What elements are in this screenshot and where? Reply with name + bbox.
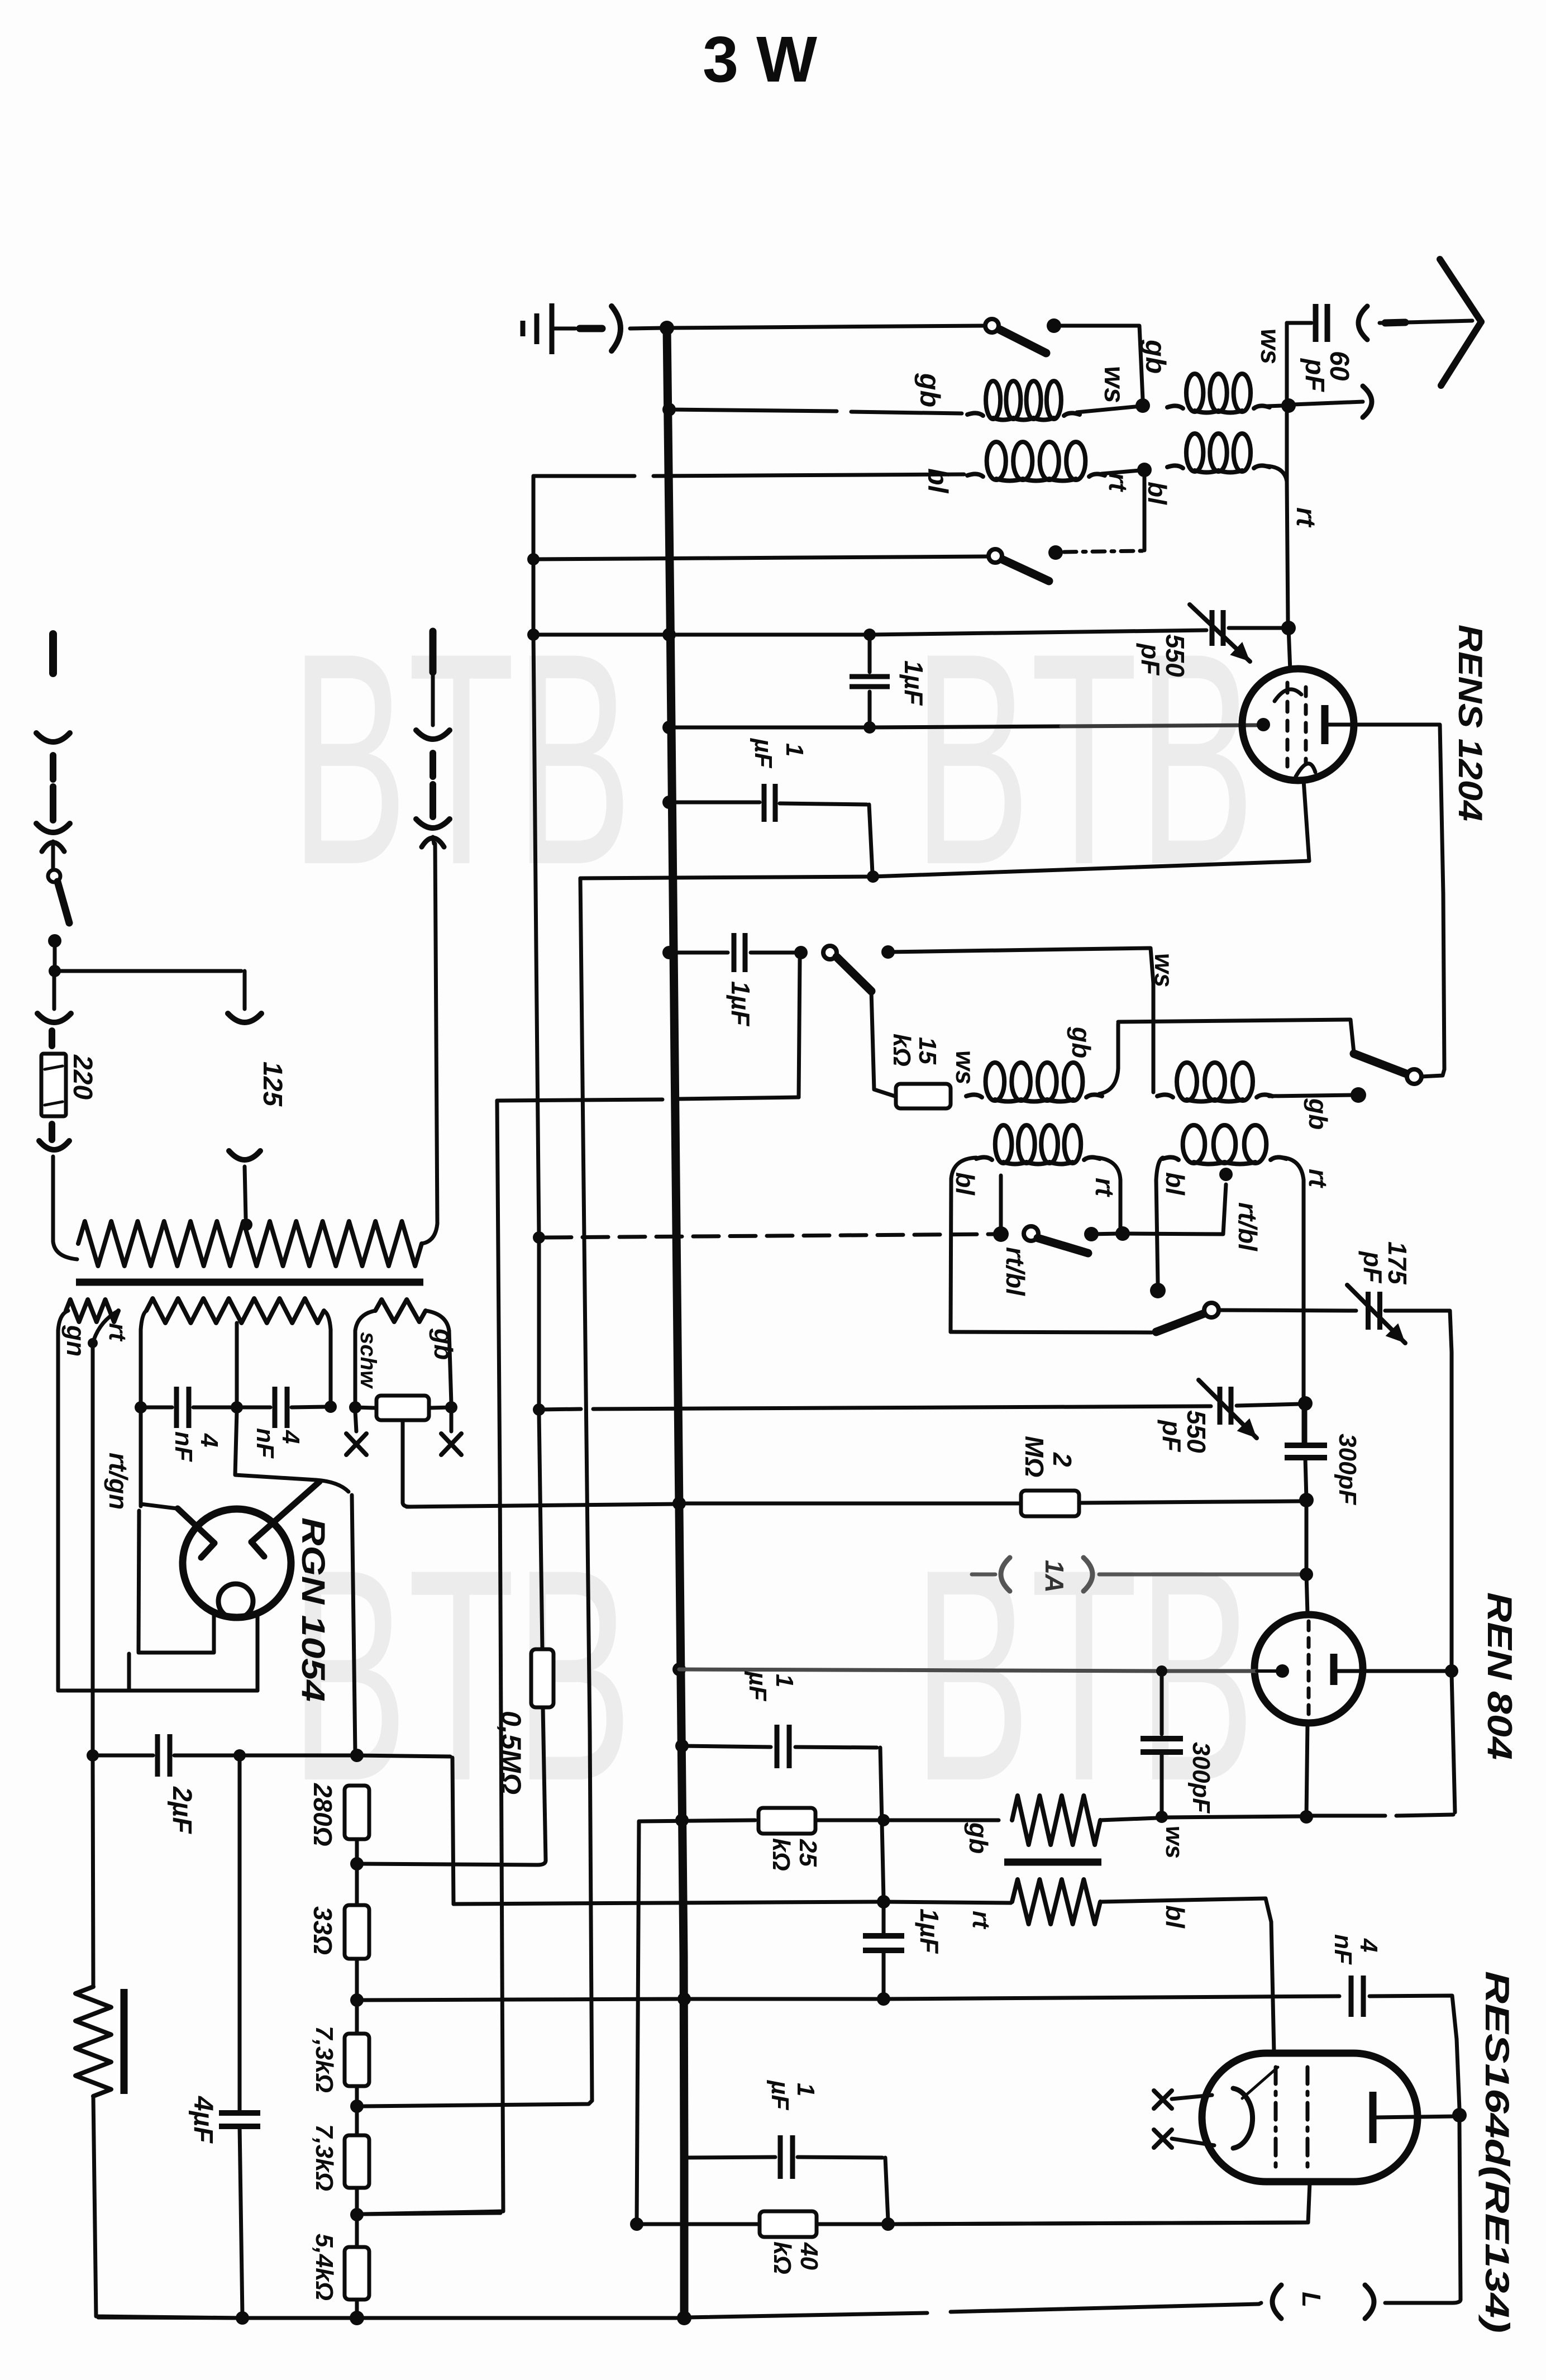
svg-text:pF: pF bbox=[1300, 358, 1329, 392]
REN804 anode bar bbox=[1330, 1654, 1338, 1685]
resistor 280 Ohm bbox=[345, 1786, 369, 1839]
wire speaker to rail bbox=[93, 2096, 240, 2318]
capacitor 1uF (AF bypass) bbox=[682, 1746, 771, 1747]
wire mains down to fuse bbox=[53, 971, 56, 1009]
node 1uF AF bottom bbox=[877, 1992, 890, 2006]
REN804 grid (dashed) bbox=[1307, 1621, 1311, 1716]
wire RGN bottom step bbox=[127, 1654, 131, 1689]
coil L3 bl bbox=[967, 474, 983, 477]
node bus 4nF row bbox=[677, 1992, 691, 2006]
fuse 220 bbox=[41, 1054, 66, 1116]
wire bottom rail bbox=[951, 2304, 1259, 2312]
svg-text:1: 1 bbox=[781, 743, 808, 756]
capacitor 4nF a bbox=[141, 1406, 172, 1410]
wire B+ row to rt riser bbox=[357, 1755, 450, 1757]
transformer T1 heater winding A bbox=[66, 1300, 118, 1322]
capacitor 60pF bbox=[1313, 304, 1319, 342]
wire REN804 plate lead bbox=[1363, 1669, 1448, 1673]
svg-text:ws: ws bbox=[951, 1050, 980, 1084]
X mark filament 2 bbox=[1154, 2130, 1172, 2148]
resistor 25kOhm bbox=[758, 1808, 815, 1834]
wire RGN left loop bbox=[139, 1511, 139, 1651]
svg-text:1: 1 bbox=[792, 2083, 819, 2096]
node osc cap bbox=[794, 946, 808, 959]
node B+ (280) bbox=[350, 1749, 364, 1762]
svg-text:rt: rt bbox=[104, 1323, 131, 1342]
coil L6 ws-gb bbox=[1157, 1094, 1173, 1097]
mains plug pin A bbox=[49, 634, 57, 673]
node ws tap bbox=[881, 945, 895, 959]
svg-text:7,3kΩ: 7,3kΩ bbox=[311, 2026, 338, 2093]
svg-text:RENS 1204: RENS 1204 bbox=[1452, 625, 1489, 821]
mains plug pin B bbox=[430, 631, 437, 672]
wire rt row bbox=[454, 1902, 880, 1904]
svg-text:300pF: 300pF bbox=[1187, 1742, 1215, 1813]
svg-text:33Ω: 33Ω bbox=[308, 1906, 337, 1955]
node plate bbox=[1445, 1664, 1458, 1678]
connector antenna jack upper bbox=[1358, 306, 1367, 340]
wire chain tap row 2 bbox=[364, 2101, 592, 2106]
node primary tap bbox=[240, 1218, 252, 1231]
bus (main vertical) bbox=[667, 328, 684, 2318]
svg-text:2: 2 bbox=[1048, 1452, 1077, 1467]
resistor 2MOhm bbox=[679, 1502, 1019, 1506]
node cathode join bbox=[1300, 1810, 1313, 1824]
wire L2 to node 60pF bbox=[1267, 406, 1283, 406]
svg-text:bl: bl bbox=[1161, 1905, 1190, 1929]
trimmer capacitor 550pF (det) bbox=[1218, 1387, 1223, 1425]
node 1uF tap bbox=[863, 629, 876, 641]
antenna symbol bbox=[1440, 259, 1481, 322]
node bus grid-leak row bbox=[672, 1663, 686, 1676]
wire 175pF to corner bbox=[1385, 1311, 1452, 1352]
tube RES164d bbox=[1202, 2053, 1418, 2182]
svg-text:1µF: 1µF bbox=[915, 1908, 944, 1954]
capacitor 4uF bbox=[238, 1759, 242, 2112]
wire anode to L jack bbox=[1459, 2122, 1461, 2300]
svg-text:µF: µF bbox=[744, 1670, 771, 1701]
node bus grid row bbox=[662, 721, 676, 734]
wire plate drop corner bbox=[1452, 1674, 1455, 1812]
transformer T1 heater winding B bbox=[375, 1300, 426, 1322]
node bus osc row bbox=[662, 946, 676, 959]
node 2M junction bbox=[1299, 1493, 1314, 1507]
svg-text:µF: µF bbox=[766, 2079, 794, 2110]
resistor chain 33 Ohm bbox=[355, 1867, 359, 1904]
wire S2 dash-dot to coil node bbox=[1064, 551, 1142, 552]
node rail chain bbox=[350, 2311, 364, 2325]
wire RENS1204 top lead bbox=[1289, 628, 1290, 670]
svg-text:gn: gn bbox=[61, 1325, 90, 1356]
svg-text:1A: 1A bbox=[1040, 1560, 1069, 1593]
capacitor 300pF (REN grid) bbox=[1160, 1671, 1164, 1734]
svg-text:bl: bl bbox=[1161, 1172, 1190, 1196]
switch S3 (feedback) bbox=[823, 946, 837, 959]
switch S1 (antenna) bbox=[985, 319, 999, 332]
wire 1A row bbox=[1099, 1573, 1301, 1577]
wire S4 to plate line bbox=[1421, 1069, 1444, 1077]
transformer T2 primary gb zigzag bbox=[1012, 1796, 1100, 1845]
wire row5 (550pF row) bbox=[533, 633, 865, 637]
wire S6 to 175pF bbox=[1219, 1310, 1356, 1311]
wire down to HT row bbox=[799, 959, 800, 1097]
svg-text:µF: µF bbox=[750, 737, 777, 768]
svg-text:RES164d(RE134): RES164d(RE134) bbox=[1478, 1971, 1516, 2333]
svg-text:15: 15 bbox=[914, 1037, 941, 1064]
svg-text:rt/bl: rt/bl bbox=[1001, 1247, 1030, 1296]
svg-text:bl: bl bbox=[1143, 482, 1172, 505]
switch S4 lever bbox=[1354, 1054, 1406, 1074]
coil L7 bl/rt bbox=[976, 1157, 992, 1160]
wire hum pot wiper bbox=[401, 1420, 405, 1503]
wire cathode lead bbox=[1304, 780, 1309, 861]
svg-text:rt: rt bbox=[1104, 473, 1133, 492]
switch S2 bbox=[989, 549, 1002, 563]
wire left vertical 955 bbox=[533, 476, 539, 1410]
ground symbol bbox=[521, 321, 526, 336]
svg-text:25: 25 bbox=[794, 1839, 822, 1867]
node ws/gb junction bbox=[1135, 398, 1150, 413]
capacitor 4nF b bbox=[240, 1406, 270, 1410]
wire filament return row bbox=[58, 1689, 257, 1693]
wire L4 right to vertical bbox=[1267, 466, 1287, 482]
svg-text:bl: bl bbox=[951, 1172, 980, 1196]
svg-text:BTB: BTB bbox=[913, 591, 1255, 927]
RENS1204 internal grids (dashed) bbox=[1286, 683, 1290, 767]
svg-text:rt: rt bbox=[1291, 507, 1320, 528]
node cap drop AF row bbox=[877, 1814, 890, 1826]
node L7 rt bbox=[1115, 1226, 1130, 1241]
capacitor 300pF (grid) bbox=[1285, 1443, 1327, 1448]
coil L4 bbox=[1167, 465, 1183, 468]
wire HT row (row9) bbox=[497, 1099, 662, 1101]
wire RGN bottom-left lead bbox=[212, 1615, 216, 1653]
wire CT jog to B+ bbox=[235, 1411, 316, 1480]
wire rt vertical (to REN804) bbox=[1302, 1180, 1306, 1444]
node CT 4nF bbox=[231, 1401, 243, 1413]
wire RES164d anode lead bbox=[1376, 2116, 1457, 2117]
node 60pF junction bbox=[1281, 398, 1296, 413]
node S5 right bbox=[1084, 1227, 1099, 1241]
speaker field coil bbox=[93, 1759, 93, 1986]
svg-text:kΩ: kΩ bbox=[769, 2241, 796, 2274]
wire row3 bl bbox=[533, 474, 634, 478]
wire L3 to node bbox=[1101, 470, 1139, 474]
wire heater A left (gn) bbox=[58, 1311, 68, 1331]
RES164d grid entry bbox=[1242, 2067, 1278, 2098]
node anode bbox=[1452, 2108, 1467, 2122]
REN804 grid terminal bbox=[1276, 1664, 1289, 1678]
svg-text:4: 4 bbox=[195, 1433, 223, 1447]
svg-text:MΩ: MΩ bbox=[1020, 1436, 1049, 1477]
wire RENS1204 cathode row bbox=[867, 870, 879, 883]
node bus row5 bbox=[662, 628, 676, 641]
wire zigzag to ws node bbox=[1100, 1818, 1157, 1820]
svg-text:rt/bl: rt/bl bbox=[1233, 1202, 1262, 1251]
wire 4nF to anode node bbox=[1370, 1996, 1457, 2039]
coil L5 ws bbox=[966, 1094, 982, 1097]
switch S6 lever bbox=[1156, 1313, 1204, 1332]
node 1uF AF top bbox=[877, 1895, 890, 1908]
terminal gb (dead end) bbox=[1351, 1087, 1366, 1103]
svg-text:2µF: 2µF bbox=[167, 1786, 197, 1834]
capacitor 1uF (output bias) bbox=[684, 2157, 775, 2158]
wire heater B right bbox=[426, 1311, 449, 1331]
wire tuned row to switch S6 bbox=[949, 1330, 953, 1332]
wire hum pot wiper row bbox=[407, 1504, 679, 1507]
svg-text:1: 1 bbox=[771, 1674, 798, 1687]
svg-text:7,3kΩ: 7,3kΩ bbox=[311, 2124, 338, 2191]
wire L5 right up bbox=[1099, 1068, 1118, 1094]
node HV right 4nF bbox=[325, 1401, 337, 1413]
svg-text:RGN 1054: RGN 1054 bbox=[295, 1517, 331, 1702]
svg-text:ws: ws bbox=[1255, 329, 1285, 364]
svg-text:gb: gb bbox=[1304, 1098, 1333, 1130]
transformer T1 primary bbox=[78, 1221, 422, 1266]
capacitor 1uF (bus to cathode row) bbox=[662, 796, 676, 809]
transformer T2 secondary rt zigzag bbox=[1012, 1879, 1100, 1924]
wire rt row left riser bbox=[452, 1758, 454, 1904]
coil L1 antenna gb bbox=[967, 413, 983, 416]
svg-text:125: 125 bbox=[257, 1062, 287, 1107]
capacitor 4nF (tone) bbox=[1349, 1976, 1354, 2017]
transformer T1 HV secondary bbox=[146, 1298, 324, 1323]
wire 550pF row bbox=[539, 1409, 581, 1410]
wire L6 right to terminal bbox=[1269, 1095, 1354, 1096]
svg-text:BTB: BTB bbox=[290, 1507, 632, 1844]
wire cathode lead REN804 bbox=[1306, 1723, 1308, 1817]
node rt/bl junction bbox=[1137, 463, 1152, 477]
svg-text:gb: gb bbox=[1140, 339, 1171, 374]
node chain 2 bbox=[350, 2100, 364, 2113]
svg-text:nF: nF bbox=[1329, 1934, 1357, 1965]
wire chain tap row 3 bbox=[364, 2213, 500, 2214]
tube RGN1054 bbox=[183, 1509, 291, 1617]
wire to L8 tap bbox=[1123, 1184, 1226, 1234]
resistor 0.5MOhm bbox=[539, 1413, 542, 1648]
svg-text:3 W: 3 W bbox=[703, 23, 818, 96]
svg-text:gb: gb bbox=[429, 1328, 458, 1360]
wire HV left to RGN bbox=[141, 1330, 176, 1508]
svg-text:L: L bbox=[1297, 2292, 1326, 2307]
switch S5 bbox=[1024, 1226, 1038, 1241]
node chain 1 bbox=[350, 1993, 364, 2007]
wire T2 sec right to RES grid bbox=[1101, 1898, 1271, 1922]
node REN804 top bbox=[1300, 1568, 1313, 1581]
connector L jack bbox=[1365, 2285, 1374, 2319]
svg-text:kΩ: kΩ bbox=[888, 1034, 915, 1067]
node rail bus bbox=[677, 2311, 691, 2325]
svg-text:4µF: 4µF bbox=[188, 2096, 218, 2144]
svg-text:220: 220 bbox=[68, 1054, 97, 1099]
RGN1054 filament right bbox=[251, 1482, 319, 1542]
node bus 2M row bbox=[672, 1497, 686, 1510]
wire ground to bus bbox=[552, 327, 575, 331]
svg-text:pF: pF bbox=[1358, 1250, 1387, 1284]
connector 1A jack bbox=[1001, 1558, 1010, 1591]
wire L7 right lead bbox=[1097, 1158, 1120, 1180]
wire ws top link bbox=[888, 948, 1153, 983]
connector lamp 125 bottom bbox=[229, 1151, 260, 1160]
X mark filament 1 bbox=[1154, 2091, 1172, 2108]
transformer T1 core bbox=[76, 1279, 423, 1286]
wire AF row right bbox=[1311, 1814, 1385, 1818]
svg-text:ws: ws bbox=[1161, 1826, 1188, 1859]
svg-text:ws: ws bbox=[1099, 366, 1130, 403]
switch S7 (mains) bbox=[48, 870, 60, 882]
resistor chain 7.3k b bbox=[345, 2135, 369, 2188]
svg-text:280Ω: 280Ω bbox=[308, 1783, 337, 1846]
svg-text:REN 804: REN 804 bbox=[1480, 1592, 1519, 1760]
node 4uF drop bbox=[233, 1749, 246, 1762]
wire L7 tap bbox=[999, 1175, 1003, 1228]
RENS1204 grid terminal bbox=[1257, 718, 1270, 731]
wire up to 60pF bbox=[1285, 323, 1289, 399]
wire row2 gb bbox=[669, 410, 837, 411]
wire 0.5M bottom link bbox=[360, 1860, 546, 1865]
node tap bbox=[993, 1226, 1009, 1242]
node bus row2 bbox=[662, 403, 676, 416]
wire grid-leak row (gray) bbox=[679, 1669, 1157, 1671]
connector lamp 125 top bbox=[228, 1013, 261, 1022]
wire 280 leads bbox=[355, 1839, 359, 1860]
RGN1054 filament left bbox=[178, 1508, 214, 1543]
coil L8 bl/rt-bl bbox=[1163, 1157, 1178, 1160]
node bus row1 bbox=[660, 321, 674, 335]
capacitor 1uF (row5 to grid row) bbox=[868, 635, 872, 672]
resistor 40kOhm bbox=[760, 2211, 817, 2237]
svg-text:rt/gn: rt/gn bbox=[104, 1453, 133, 1510]
node grid-cap junction bbox=[1281, 621, 1296, 635]
svg-text:1µF: 1µF bbox=[899, 660, 928, 706]
svg-text:gb: gb bbox=[914, 373, 946, 407]
resistor 15kOhm bbox=[896, 1084, 951, 1108]
wire primary right lead bbox=[422, 1224, 437, 1244]
svg-text:0,5MΩ: 0,5MΩ bbox=[495, 1711, 527, 1794]
RENS1204 anode bar bbox=[1321, 705, 1329, 744]
svg-text:gb: gb bbox=[1067, 1026, 1096, 1058]
node AVC left bbox=[533, 1231, 545, 1244]
svg-text:4: 4 bbox=[277, 1430, 304, 1444]
speaker magnet bar bbox=[121, 1989, 128, 2094]
capacitor 1uF (AF coupling) bbox=[882, 1905, 886, 1933]
node ws (AF row) bbox=[1156, 1811, 1168, 1823]
wire row1 antenna switch feed bbox=[667, 326, 985, 328]
wire HV left lead bbox=[141, 1311, 146, 1330]
svg-text:nF: nF bbox=[170, 1431, 197, 1462]
trimmer capacitor 550pF bbox=[1210, 610, 1215, 646]
node 280 bottom bbox=[350, 1857, 364, 1870]
wire RES164d cathode bbox=[893, 2183, 1310, 2224]
node rail 4uF bbox=[236, 2311, 249, 2325]
svg-text:rt: rt bbox=[1304, 1169, 1333, 1188]
wire S3 to 15k bbox=[871, 991, 895, 1096]
wire 40k row bbox=[630, 2217, 643, 2231]
node 4nF a left bbox=[135, 1401, 147, 1413]
RES164d grids (dash-dot) bbox=[1274, 2067, 1278, 2169]
svg-text:1µF: 1µF bbox=[726, 981, 755, 1027]
capacitor 1uF (osc) bbox=[732, 933, 737, 972]
wire heater B left bbox=[355, 1311, 375, 1331]
node bus AF row bbox=[675, 1813, 689, 1827]
terminal rt/bl (dead end) bbox=[1150, 1283, 1166, 1298]
coil L2 antenna bbox=[1167, 406, 1183, 408]
wire vertical rt (to 550pF row) bbox=[1285, 406, 1289, 482]
svg-text:schw: schw bbox=[356, 1332, 380, 1389]
svg-text:4: 4 bbox=[1355, 1938, 1382, 1952]
node left vertical row5 bbox=[527, 629, 540, 641]
wire up to rt/bl node bbox=[1143, 477, 1147, 550]
RGN1054 bottom dimple bbox=[218, 1584, 253, 1619]
resistor hum pot bbox=[355, 1407, 374, 1408]
node bus AF bypass row bbox=[675, 1739, 689, 1753]
wire grid return row (4nF row) bbox=[364, 1999, 678, 2000]
node L8 tap bbox=[1219, 1168, 1233, 1181]
wire anode lead bbox=[1328, 723, 1439, 727]
wire gb horizontal to switch bbox=[1118, 1020, 1354, 1053]
wire 550pF to node bbox=[1229, 626, 1282, 630]
wire L8 right lead bbox=[1283, 1158, 1304, 1180]
trimmer capacitor 175pF bbox=[1366, 1292, 1371, 1330]
svg-text:5,4kΩ: 5,4kΩ bbox=[311, 2234, 338, 2301]
svg-text:rt: rt bbox=[967, 1911, 995, 1930]
node 2uF row left bbox=[87, 1749, 99, 1762]
wire REN804 plate feed bbox=[1305, 1507, 1309, 1574]
wire RGN bottom-right lead bbox=[256, 1615, 260, 1691]
wire left vertical (cathode row drop) bbox=[580, 878, 592, 2101]
node mains junction bbox=[53, 941, 57, 969]
RES164d anode bar bbox=[1370, 2092, 1377, 2143]
RES164d filament bbox=[1233, 2088, 1253, 2148]
svg-text:300pF: 300pF bbox=[1334, 1434, 1361, 1505]
wire L7 left lead bbox=[951, 1158, 976, 1179]
wire HV right lead bbox=[324, 1311, 331, 1330]
resistor chain 7.3k a bbox=[345, 2034, 369, 2086]
tube RENS1204 bbox=[1242, 669, 1354, 780]
node 550pF row left bbox=[533, 1403, 545, 1416]
svg-text:kΩ: kΩ bbox=[767, 1838, 795, 1871]
wire heater A right (rt) bbox=[94, 1311, 118, 1340]
wire row4 switch row bbox=[527, 553, 540, 565]
wire dashed AVC row bbox=[546, 1234, 998, 1237]
X mark chassis a bbox=[346, 1434, 366, 1455]
svg-text:bl: bl bbox=[922, 468, 953, 494]
wire left vertical to divider bbox=[366, 1101, 503, 2214]
svg-text:gb: gb bbox=[964, 1822, 993, 1854]
wire right vertical (175pF to REN804 plate) bbox=[1450, 1352, 1454, 1668]
wire HV center tap bbox=[235, 1323, 239, 1403]
node det grid bbox=[1298, 1396, 1313, 1411]
node 40k right bbox=[881, 2217, 895, 2231]
wire AF row (25k) bbox=[639, 1820, 755, 1821]
X mark chassis b bbox=[441, 1434, 461, 1455]
svg-text:pF: pF bbox=[1136, 642, 1165, 676]
svg-text:rt: rt bbox=[1090, 1178, 1119, 1197]
wire RENS1204 plate drop (to wave switch) bbox=[1440, 725, 1444, 1069]
capacitor 2uF bbox=[93, 1754, 153, 1758]
wire 25k row left riser bbox=[637, 1821, 639, 2224]
svg-text:40: 40 bbox=[795, 2242, 823, 2270]
svg-text:pF: pF bbox=[1157, 1419, 1186, 1453]
wire L1 to node bbox=[1077, 406, 1141, 412]
resistor chain 5.4k bbox=[345, 2247, 369, 2300]
tube REN804 bbox=[1254, 1615, 1363, 1723]
wire to voltage selector bbox=[55, 969, 241, 973]
wire L8 left lead bbox=[1156, 1158, 1163, 1180]
connector antenna jack lower bbox=[1363, 386, 1372, 417]
wire drop to rt row bbox=[880, 1748, 884, 1898]
node chain 3 bbox=[350, 2208, 364, 2221]
